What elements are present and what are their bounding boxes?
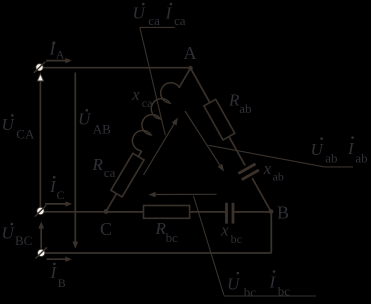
wire side A-C lower segment bbox=[106, 194, 117, 212]
label I_A bbox=[49, 39, 65, 61]
svg-text:U: U bbox=[133, 3, 147, 22]
underline of U_ca I_ca label bbox=[140, 26, 175, 28]
svg-text:x: x bbox=[131, 85, 140, 104]
svg-text:ca: ca bbox=[148, 13, 160, 28]
current arrow I_ca bbox=[144, 124, 175, 175]
leader line to U_ab I_ab label bbox=[209, 145, 325, 167]
svg-text:ca: ca bbox=[174, 13, 186, 28]
svg-text:U: U bbox=[2, 224, 16, 243]
svg-text:B: B bbox=[58, 276, 66, 290]
svg-text:U: U bbox=[78, 110, 92, 129]
wire side A-C mid segment bbox=[138, 151, 141, 157]
resistor R_ca bbox=[111, 153, 144, 197]
label vertex A bbox=[184, 43, 197, 63]
underline of U_ab I_ab label bbox=[324, 166, 353, 168]
wire phase C horizontal bbox=[44, 211, 104, 213]
svg-text:ab: ab bbox=[239, 101, 251, 116]
label I_ab bbox=[347, 136, 368, 165]
svg-text:B: B bbox=[277, 203, 289, 223]
label x_bc bbox=[220, 221, 242, 246]
svg-text:AB: AB bbox=[93, 122, 111, 137]
voltage arrow U_BC bbox=[40, 228, 42, 249]
current arrow I_A bbox=[46, 60, 66, 62]
terminal A bbox=[34, 62, 45, 73]
label vertex B bbox=[277, 203, 289, 223]
svg-text:BC: BC bbox=[15, 233, 32, 248]
label R_bc bbox=[155, 219, 179, 245]
svg-text:bc: bc bbox=[278, 283, 291, 298]
label x_ca bbox=[131, 85, 153, 110]
label R_ca bbox=[92, 155, 116, 180]
svg-text:bc: bc bbox=[231, 232, 242, 246]
svg-text:R: R bbox=[92, 155, 104, 174]
current arrow I_C bbox=[45, 203, 66, 205]
svg-text:U: U bbox=[2, 115, 16, 134]
capacitor X_ab bbox=[238, 164, 255, 174]
label R_ab bbox=[228, 90, 251, 116]
svg-text:ab: ab bbox=[325, 150, 337, 165]
svg-text:C: C bbox=[57, 188, 65, 202]
label I_B bbox=[50, 263, 66, 290]
label U_ca bbox=[133, 3, 161, 28]
label U_ab bbox=[311, 137, 338, 165]
wire phase A horizontal bbox=[43, 67, 188, 69]
wire phase B horizontal rail bbox=[45, 252, 271, 254]
label I_bc bbox=[269, 270, 291, 298]
leader line to U_ca I_ca label bbox=[140, 27, 166, 135]
label U_BC bbox=[2, 223, 33, 248]
label U_bc bbox=[227, 272, 256, 300]
wire side A-B lower segment bbox=[252, 178, 271, 212]
current arrow I_ab bbox=[185, 111, 220, 165]
wire side A-B mid segment bbox=[229, 137, 245, 166]
inductor X_ca coil bbox=[132, 83, 179, 151]
wire B rail riser to vertex B bbox=[270, 214, 272, 253]
underline of U_bc I_bc label bbox=[224, 295, 316, 297]
node C bbox=[104, 209, 109, 214]
wire side C-B right segment bbox=[234, 211, 269, 213]
svg-text:ab: ab bbox=[273, 170, 284, 184]
label U_CA bbox=[2, 114, 35, 141]
voltage arrow U_AB bbox=[74, 73, 76, 243]
svg-text:ab: ab bbox=[355, 150, 367, 165]
node A bbox=[188, 66, 193, 71]
resistor R_ab bbox=[204, 99, 235, 140]
label I_C bbox=[49, 176, 65, 202]
label x_ab bbox=[263, 159, 284, 184]
wire side A-C upper segment bbox=[179, 70, 190, 88]
capacitor X_bc bbox=[225, 203, 228, 224]
svg-text:CA: CA bbox=[16, 126, 35, 141]
svg-text:A: A bbox=[184, 43, 197, 63]
label U_AB bbox=[78, 109, 111, 137]
svg-text:x: x bbox=[263, 159, 272, 178]
svg-text:U: U bbox=[311, 140, 325, 159]
svg-text:U: U bbox=[227, 274, 241, 293]
current arrow I_bc bbox=[156, 193, 217, 195]
terminal B bbox=[36, 247, 47, 258]
wire side C-B left segment bbox=[106, 211, 144, 213]
svg-text:ca: ca bbox=[104, 165, 116, 180]
svg-text:C: C bbox=[100, 219, 112, 239]
svg-text:bc: bc bbox=[166, 230, 179, 245]
svg-text:A: A bbox=[56, 47, 65, 61]
label vertex C bbox=[100, 219, 112, 239]
svg-text:R: R bbox=[228, 90, 240, 109]
label I_ca bbox=[165, 3, 186, 28]
node B bbox=[269, 209, 274, 214]
resistor R_bc bbox=[144, 206, 190, 219]
svg-text:x: x bbox=[220, 221, 229, 240]
svg-text:ca: ca bbox=[142, 96, 153, 110]
wire side A-B upper segment bbox=[192, 70, 210, 103]
wire side C-B mid segment bbox=[190, 211, 226, 213]
terminal C bbox=[35, 205, 46, 216]
leader line to U_bc I_bc label bbox=[194, 196, 225, 296]
svg-text:bc: bc bbox=[244, 284, 257, 299]
current arrow I_B bbox=[47, 258, 66, 260]
voltage arrow U_CA bbox=[39, 80, 41, 207]
